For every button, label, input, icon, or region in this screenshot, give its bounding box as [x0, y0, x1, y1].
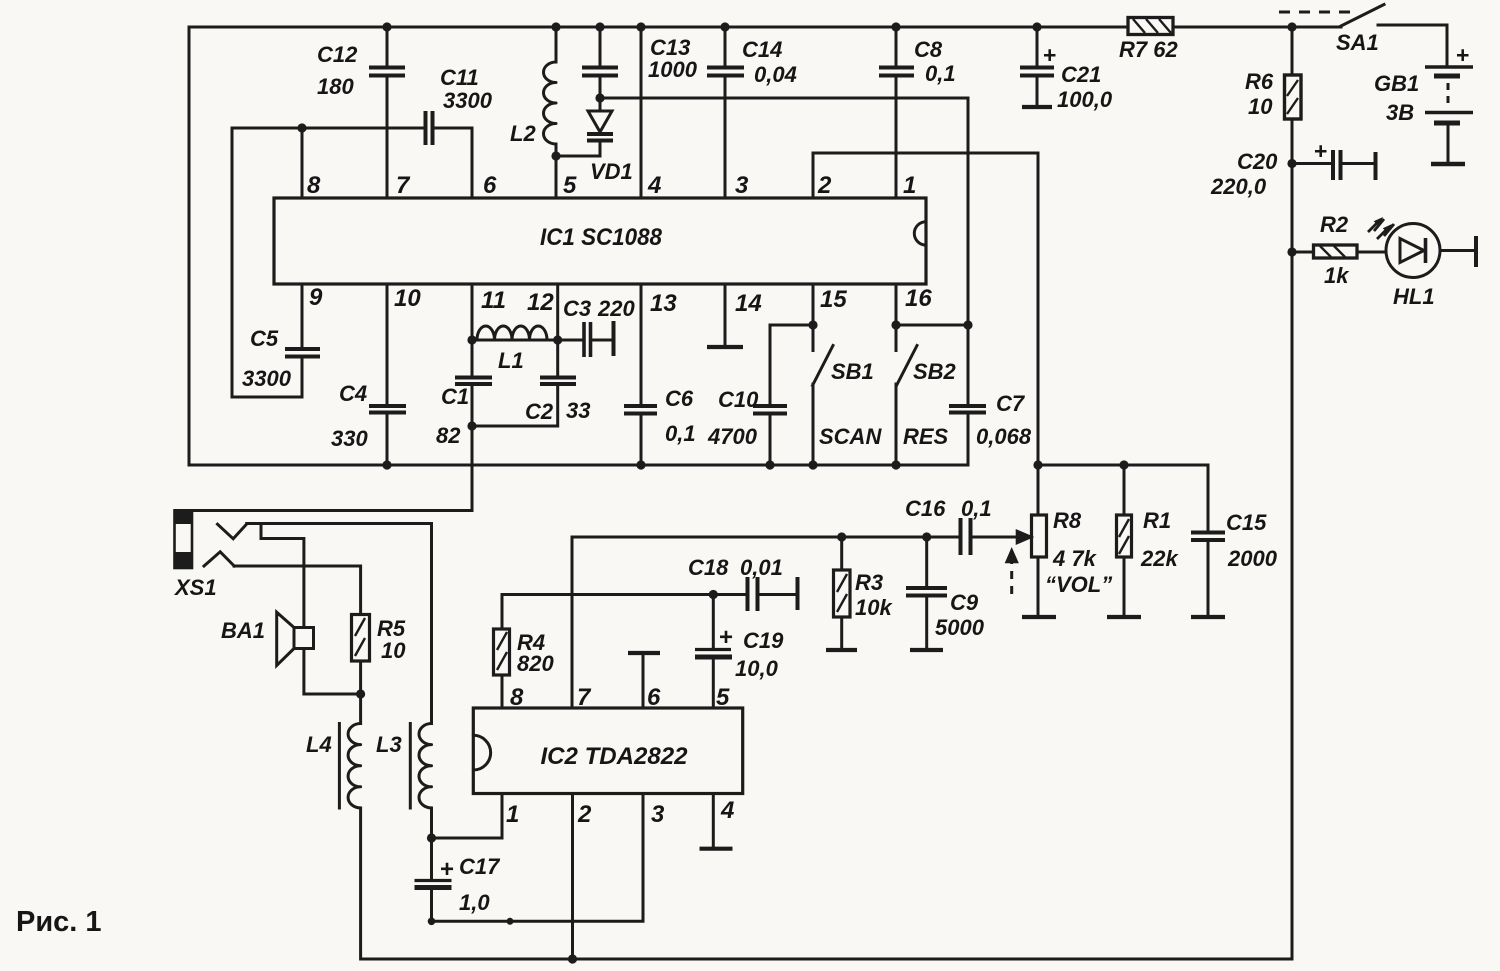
svg-text:6: 6: [483, 172, 497, 199]
svg-text:R8: R8: [1053, 508, 1082, 533]
svg-text:VD1: VD1: [590, 159, 633, 184]
svg-text:2: 2: [817, 172, 832, 199]
svg-text:3B: 3B: [1386, 100, 1414, 125]
svg-text:IC1 SC1088: IC1 SC1088: [540, 224, 663, 251]
svg-text:RES: RES: [903, 424, 949, 449]
svg-text:220,0: 220,0: [1210, 174, 1267, 199]
svg-text:C15: C15: [1226, 510, 1267, 535]
svg-text:8: 8: [307, 172, 321, 199]
svg-text:C20: C20: [1237, 149, 1278, 174]
svg-text:C18: C18: [688, 555, 729, 580]
svg-text:14: 14: [735, 290, 762, 317]
svg-text:C11: C11: [440, 65, 479, 90]
svg-text:330: 330: [331, 426, 368, 451]
svg-text:3300: 3300: [443, 88, 493, 113]
svg-text:SB1: SB1: [831, 359, 874, 384]
svg-text:820: 820: [517, 651, 554, 676]
svg-text:BA1: BA1: [221, 618, 265, 643]
svg-text:4: 4: [720, 797, 734, 824]
svg-text:C5: C5: [250, 326, 279, 351]
svg-text:0,068: 0,068: [976, 424, 1032, 449]
svg-text:SA1: SA1: [1336, 30, 1379, 55]
svg-text:180: 180: [317, 74, 354, 99]
svg-text:5000: 5000: [935, 615, 985, 640]
svg-text:HL1: HL1: [1393, 284, 1435, 309]
svg-text:C14: C14: [742, 37, 782, 62]
svg-text:C19: C19: [743, 628, 784, 653]
svg-text:C16: C16: [905, 496, 946, 521]
svg-text:3: 3: [735, 172, 749, 199]
svg-text:10k: 10k: [855, 595, 893, 620]
svg-text:+: +: [719, 624, 733, 651]
svg-text:0,1: 0,1: [961, 496, 992, 521]
svg-text:C21: C21: [1061, 62, 1101, 87]
svg-text:SCAN: SCAN: [819, 424, 882, 449]
svg-text:3300: 3300: [242, 366, 292, 391]
svg-text:1: 1: [506, 801, 519, 828]
svg-text:6: 6: [647, 684, 661, 711]
svg-text:5: 5: [716, 684, 730, 711]
svg-text:C7: C7: [996, 391, 1026, 416]
svg-text:L3: L3: [376, 732, 402, 757]
svg-text:IC2 TDA2822: IC2 TDA2822: [541, 743, 689, 770]
svg-text:GB1: GB1: [1374, 71, 1419, 96]
svg-text:SB2: SB2: [913, 359, 957, 384]
svg-text:C12: C12: [317, 42, 358, 67]
svg-text:+: +: [1456, 42, 1469, 68]
svg-text:22k: 22k: [1140, 546, 1179, 571]
svg-text:C1: C1: [441, 384, 469, 409]
svg-text:“VOL”: “VOL”: [1045, 572, 1112, 597]
svg-text:0,01: 0,01: [740, 555, 783, 580]
svg-text:Рис. 1: Рис. 1: [16, 906, 102, 938]
svg-text:C17: C17: [459, 854, 501, 879]
svg-text:10,0: 10,0: [735, 656, 779, 681]
svg-text:C3: C3: [563, 296, 591, 321]
svg-text:4 7k: 4 7k: [1052, 546, 1098, 571]
svg-text:10: 10: [381, 638, 406, 663]
svg-text:220: 220: [597, 296, 635, 321]
svg-text:L1: L1: [498, 348, 524, 373]
svg-text:+: +: [1314, 138, 1327, 164]
svg-text:82: 82: [436, 423, 461, 448]
svg-text:C9: C9: [950, 590, 979, 615]
svg-text:0,1: 0,1: [665, 421, 696, 446]
svg-text:13: 13: [650, 290, 677, 317]
svg-text:2: 2: [577, 801, 592, 828]
svg-text:0,1: 0,1: [925, 61, 956, 86]
svg-text:R1: R1: [1143, 508, 1171, 533]
svg-text:C6: C6: [665, 386, 694, 411]
svg-text:+: +: [440, 856, 454, 883]
svg-text:16: 16: [905, 285, 932, 312]
svg-text:2000: 2000: [1227, 546, 1278, 571]
svg-text:3: 3: [651, 801, 665, 828]
svg-text:12: 12: [527, 289, 554, 316]
svg-text:7: 7: [396, 172, 411, 199]
svg-text:4: 4: [647, 172, 661, 199]
svg-text:R6: R6: [1245, 69, 1274, 94]
svg-text:C4: C4: [339, 381, 367, 406]
svg-text:1k: 1k: [1324, 263, 1350, 288]
svg-text:+: +: [1043, 42, 1056, 68]
svg-text:R3: R3: [855, 570, 883, 595]
svg-text:4700: 4700: [707, 424, 758, 449]
svg-text:1000: 1000: [648, 57, 698, 82]
svg-text:8: 8: [510, 684, 524, 711]
svg-text:L2: L2: [510, 121, 536, 146]
svg-text:100,0: 100,0: [1057, 87, 1113, 112]
svg-text:C10: C10: [718, 387, 759, 412]
svg-text:15: 15: [820, 286, 847, 313]
svg-text:9: 9: [309, 284, 323, 311]
svg-text:R7 62: R7 62: [1119, 37, 1178, 62]
svg-text:XS1: XS1: [173, 575, 217, 600]
svg-text:11: 11: [481, 287, 506, 314]
svg-text:10: 10: [1248, 94, 1273, 119]
svg-text:10: 10: [394, 285, 421, 312]
svg-text:1,0: 1,0: [459, 890, 490, 915]
svg-text:C8: C8: [914, 37, 943, 62]
svg-text:L4: L4: [306, 732, 332, 757]
svg-text:7: 7: [577, 684, 592, 711]
svg-text:5: 5: [563, 172, 577, 199]
svg-text:0,04: 0,04: [754, 62, 797, 87]
svg-text:33: 33: [566, 398, 590, 423]
svg-text:C2: C2: [525, 399, 554, 424]
svg-text:1: 1: [903, 172, 916, 199]
svg-text:R2: R2: [1320, 212, 1349, 237]
